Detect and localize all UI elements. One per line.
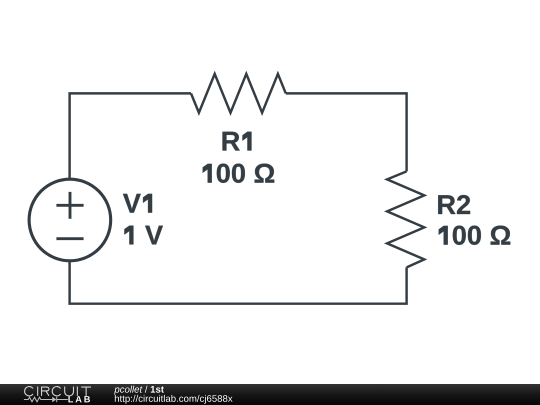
value 1 V — [124, 226, 163, 245]
footer author and title: pcollet / 1st — [114, 386, 164, 395]
label V1 — [123, 194, 152, 213]
V1 plus symbol — [56, 192, 83, 219]
CircuitLab logo diode triangle — [52, 397, 56, 402]
resistor R1 zigzag body — [191, 74, 286, 113]
V1 minus symbol — [56, 237, 83, 240]
value 100 Ohm of R2 — [439, 226, 511, 245]
label R1 — [223, 132, 252, 151]
wire: R1 right lead to top-right corner, down to R2 top terminal — [286, 93, 407, 171]
label R2 — [438, 195, 470, 214]
wire: V1 top terminal up to top-left corner, right to R1 left lead — [70, 93, 191, 178]
voltage source V1 circle body — [29, 179, 111, 261]
resistor R2 zigzag body — [387, 171, 424, 267]
wire: R2 bottom terminal to bottom-right corner, bottom rail, up to V1 bottom terminal — [70, 262, 407, 304]
footer bar — [0, 384, 540, 405]
CircuitLab logo resistor-diode mark — [24, 397, 68, 402]
value 100 Ohm of R1 — [203, 164, 275, 183]
CircuitLab logo LAB — [68, 396, 90, 402]
footer url http://circuitlab.com/cj6588x — [115, 395, 233, 404]
CircuitLab logo wordmark CIRCUIT — [25, 386, 91, 395]
